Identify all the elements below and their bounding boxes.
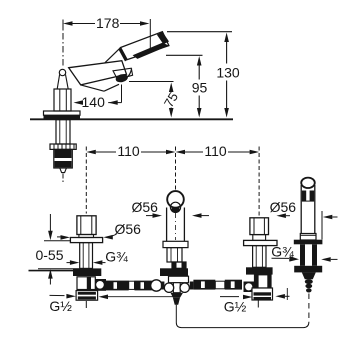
svg-text:0-55: 0-55 xyxy=(35,247,63,263)
svg-text:Ø56: Ø56 xyxy=(131,199,158,215)
svg-text:110: 110 xyxy=(117,143,140,159)
svg-text:110: 110 xyxy=(204,143,227,159)
svg-text:178: 178 xyxy=(96,15,120,31)
svg-text:130: 130 xyxy=(216,65,240,81)
svg-text:140: 140 xyxy=(82,94,106,110)
svg-text:G½: G½ xyxy=(224,298,247,314)
svg-text:Ø56: Ø56 xyxy=(114,221,141,237)
svg-text:G¾: G¾ xyxy=(105,249,128,265)
svg-text:G½: G½ xyxy=(49,298,72,314)
svg-text:Ø56: Ø56 xyxy=(270,199,297,215)
svg-text:95: 95 xyxy=(192,80,208,96)
